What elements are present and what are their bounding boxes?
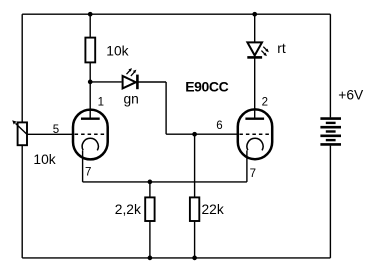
junction node anode1 / green LED [88, 80, 93, 85]
tube V1 grid (dashed) [75, 133, 106, 135]
tube V2 cathode arc [247, 138, 263, 150]
junction node top rail / red LED [252, 12, 257, 17]
svg-text:gn: gn [124, 92, 139, 107]
tube V1 (E90CC triode a) envelope [73, 110, 108, 160]
wire grid2 line to tube2 pin 6 [166, 133, 238, 135]
wire red LED top lead [254, 14, 256, 42]
svg-text:E90CC: E90CC [185, 79, 228, 95]
junction node bottom rail / 2,2k [148, 256, 153, 261]
wire 2,2k bottom lead [149, 221, 151, 258]
LED gn (green) diode triangle [123, 76, 136, 88]
battery +6V cells [320, 119, 341, 145]
wire pot wiper to tube1 grid pin 5 [27, 133, 73, 135]
svg-text:10k: 10k [106, 43, 128, 58]
svg-text:10k: 10k [33, 152, 55, 167]
wire bottom rail [22, 257, 330, 259]
LED rt cathode bar [247, 56, 262, 59]
wire left rail upper [21, 14, 23, 122]
wire tube1 cathode lead pin 7 [82, 150, 84, 182]
LED gn light arrow 2 [131, 70, 137, 76]
wire 10k resistor top lead [89, 14, 91, 37]
wire cathode rail [83, 181, 247, 183]
resistor 22k (grid leak) [190, 197, 199, 221]
svg-text:rt: rt [277, 41, 286, 56]
wire corner down to grid2 line [165, 82, 167, 134]
svg-text:7: 7 [250, 168, 256, 180]
wire right rail lower [329, 146, 331, 258]
LED rt (red) diode triangle [247, 42, 262, 55]
tube V1 cathode arc [82, 138, 98, 150]
wire 10k resistor bottom lead to anode node [89, 62, 91, 82]
svg-text:2: 2 [262, 96, 268, 108]
wire anode node to green LED [90, 81, 121, 83]
svg-text:5: 5 [53, 124, 59, 136]
wire tube1 anode lead pin 1 [89, 82, 91, 118]
tube V2 grid (dashed) [239, 133, 270, 135]
wire grid2 node down to 22k [194, 134, 196, 197]
svg-text:1: 1 [98, 96, 104, 108]
LED gn cathode bar [136, 75, 139, 90]
resistor 10k (anode load) [85, 38, 95, 63]
junction node grid2 / 22k [192, 132, 197, 137]
wire 22k bottom lead [194, 221, 196, 258]
LED rt light arrow 2 [261, 51, 267, 57]
svg-text:22k: 22k [202, 202, 224, 217]
wire tube2 cathode lead pin 7 [246, 150, 248, 182]
svg-text:+6V: +6V [338, 87, 364, 102]
potentiometer 10k body [18, 122, 27, 145]
LED gn light arrow 1 [127, 68, 133, 74]
tube V1 anode plate [81, 117, 100, 119]
wire left rail lower [21, 145, 23, 258]
junction node cathode rail / 2,2k [148, 180, 153, 185]
svg-text:6: 6 [216, 120, 222, 132]
LED rt light arrow 1 [263, 47, 269, 53]
wire green LED to corner [137, 81, 166, 83]
junction node top rail / 10k [88, 12, 93, 17]
tube V2 anode plate [245, 117, 264, 119]
junction node bottom rail / 22k [192, 256, 197, 261]
svg-text:2,2k: 2,2k [115, 202, 141, 217]
wire top rail [22, 13, 330, 15]
wire right rail upper [329, 14, 331, 117]
resistor 2,2k (cathode) [145, 197, 154, 221]
potentiometer wiper arrow [12, 120, 27, 134]
tube V2 (E90CC triode b) envelope [238, 109, 272, 159]
wire tube2 anode lead pin 2 [254, 58, 256, 118]
wire 2,2k top lead [149, 182, 151, 198]
svg-text:7: 7 [85, 167, 91, 179]
